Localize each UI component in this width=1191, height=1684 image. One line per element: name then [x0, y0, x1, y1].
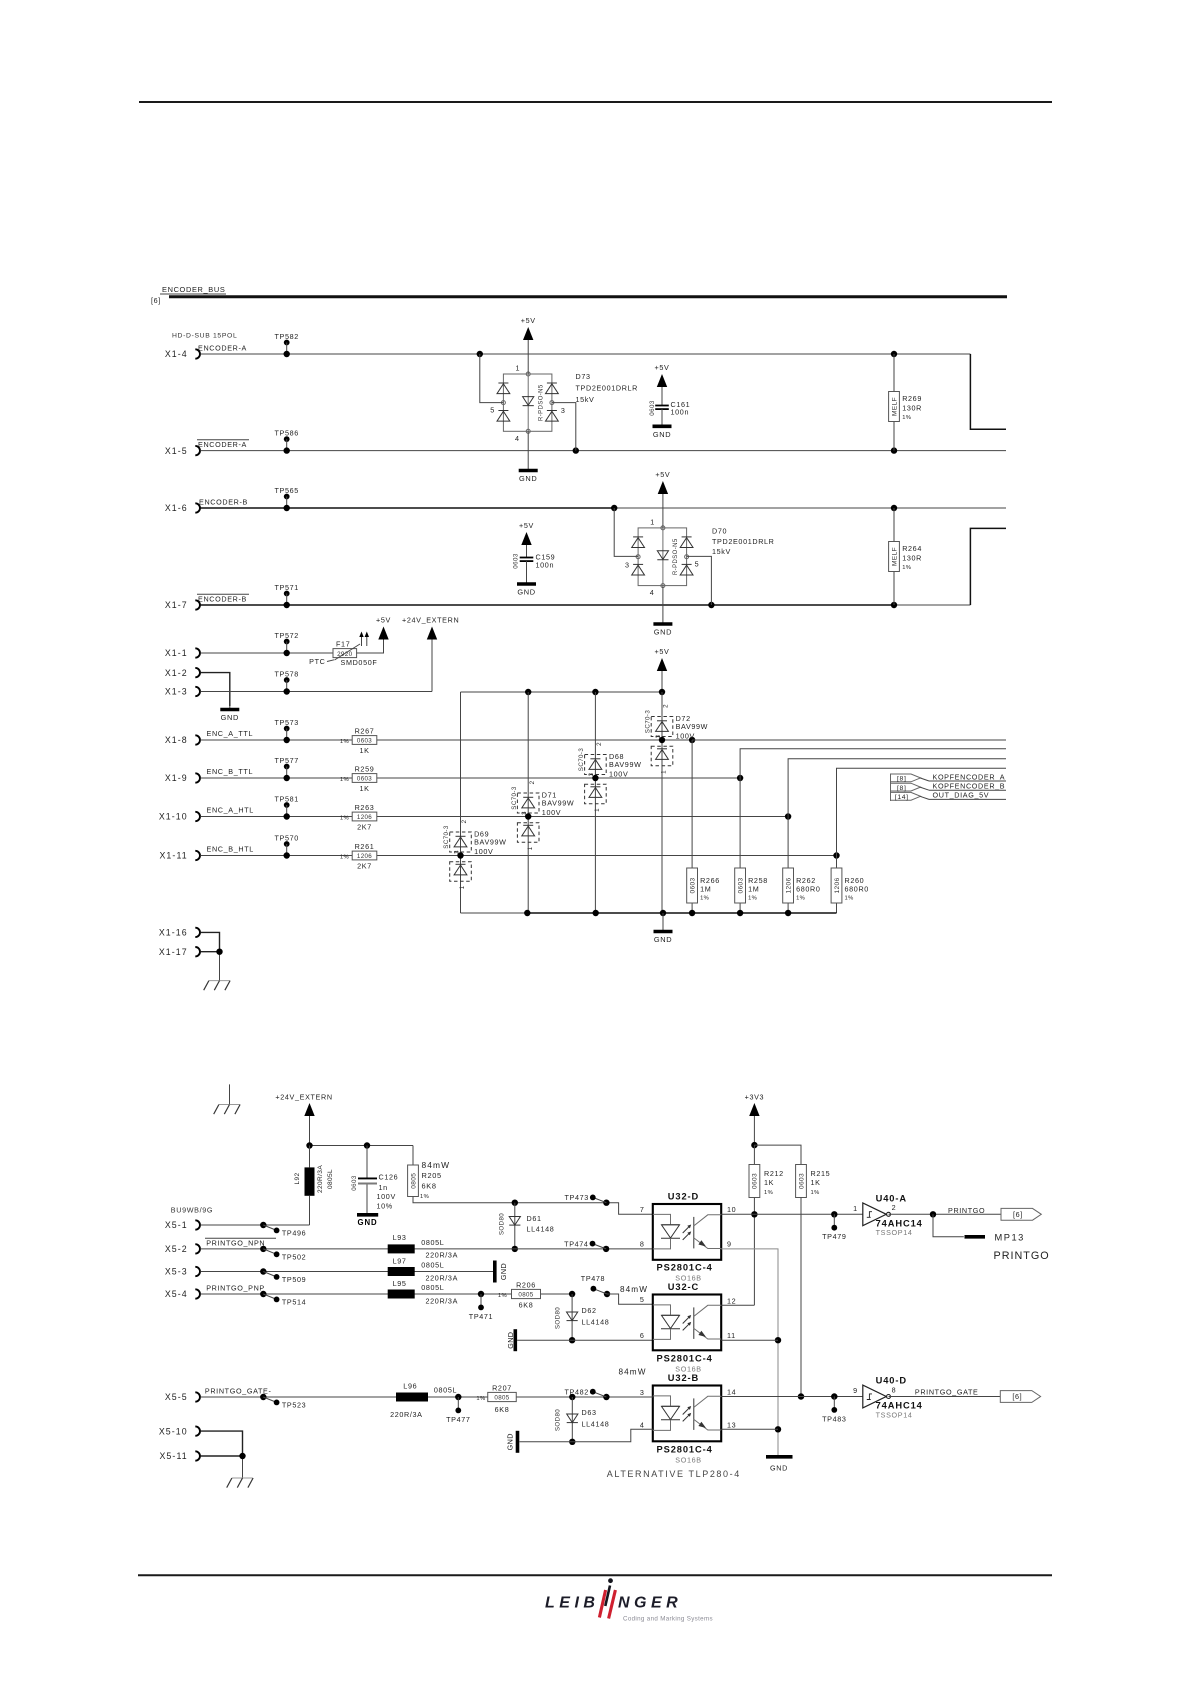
node rail D68: [592, 689, 598, 695]
wire X1-10: [200, 816, 788, 818]
svg-text:2K7: 2K7: [357, 823, 372, 832]
svg-text:680R0: 680R0: [845, 885, 869, 894]
svg-text:0603: 0603: [737, 877, 744, 893]
ground GND rail: [662, 913, 664, 932]
wire U32-B pin13: [721, 1428, 778, 1430]
svg-text:ALTERNATIVE TLP280-4: ALTERNATIVE TLP280-4: [607, 1469, 741, 1479]
svg-text:TP565: TP565: [274, 486, 298, 495]
svg-text:KOPFENCODER_B: KOPFENCODER_B: [933, 782, 1006, 791]
svg-text:TP473: TP473: [564, 1193, 588, 1202]
svg-text:1%: 1%: [498, 1293, 507, 1299]
wire F17 to +5V: [357, 640, 384, 654]
node X1-10 / R262: [785, 813, 791, 819]
svg-text:U40-D: U40-D: [876, 1376, 907, 1386]
testpoint TP483: [831, 1393, 837, 1399]
svg-text:PS2801C-4: PS2801C-4: [657, 1353, 713, 1363]
svg-text:12: 12: [727, 1297, 736, 1306]
svg-text:0805L: 0805L: [421, 1261, 444, 1270]
svg-text:130R: 130R: [902, 554, 922, 563]
node pin11 junction: [775, 1337, 781, 1343]
wire X1-11: [200, 855, 836, 857]
resistor R266: [691, 740, 693, 913]
svg-text:1%: 1%: [700, 896, 709, 902]
svg-text:5: 5: [490, 405, 495, 414]
svg-text:2: 2: [461, 819, 468, 823]
resistor R215: [754, 1145, 801, 1164]
wire X1-2 to GND: [200, 673, 229, 706]
diode D63: [571, 1397, 573, 1442]
svg-text:TP571: TP571: [274, 583, 298, 592]
svg-text:R267: R267: [355, 726, 375, 735]
svg-text:SC70-3: SC70-3: [511, 786, 518, 810]
svg-text:1%: 1%: [902, 415, 911, 421]
svg-text:TSSOP14: TSSOP14: [876, 1228, 913, 1237]
svg-text:TP573: TP573: [274, 718, 298, 727]
testpoint TP523: [260, 1394, 266, 1400]
svg-text:ENC_A_TTL: ENC_A_TTL: [207, 729, 254, 738]
node GND rail junction: [737, 910, 743, 916]
inverter U40-A: [863, 1203, 887, 1226]
svg-text:9: 9: [727, 1240, 732, 1249]
wire X1-3 to +24V_EXTERN: [200, 691, 432, 693]
svg-text:1: 1: [527, 846, 534, 850]
svg-text:1M: 1M: [700, 885, 711, 894]
svg-text:GND: GND: [221, 713, 239, 722]
connector pin X5-5: [195, 1392, 200, 1401]
wire D70 pin5 to X1-7: [687, 556, 712, 605]
ground X1-2: [229, 706, 231, 710]
connector pin X1-5: [195, 446, 200, 455]
connector pin X1-6: [195, 503, 200, 512]
optocoupler U32-B: [653, 1386, 721, 1442]
svg-text:2: 2: [663, 704, 670, 708]
svg-text:TP582: TP582: [274, 332, 298, 341]
svg-text:ENCODER-A: ENCODER-A: [198, 440, 247, 449]
svg-text:0805: 0805: [494, 1394, 509, 1401]
svg-text:3: 3: [655, 734, 662, 738]
wire U32-D pin10 to U40-A: [721, 1213, 863, 1215]
connector pin X1-17: [195, 947, 200, 956]
svg-text:ENCODER_BUS: ENCODER_BUS: [162, 285, 225, 294]
page ref [14] OUT_DIAG_5V: [891, 792, 921, 800]
svg-text:3: 3: [561, 406, 566, 415]
diode array D68: [585, 755, 607, 775]
resistor R207: [488, 1392, 517, 1401]
svg-text:SC70-3: SC70-3: [443, 825, 450, 849]
testpoint TP502: [260, 1246, 266, 1252]
resistor R267: [352, 736, 377, 745]
svg-text:TP496: TP496: [282, 1229, 306, 1238]
svg-text:5: 5: [695, 560, 700, 569]
svg-text:1%: 1%: [845, 896, 854, 902]
svg-text:MELF: MELF: [891, 397, 898, 416]
wire U32-D pin9 down: [721, 1249, 778, 1456]
node X1-4 / D73 junction: [477, 351, 483, 357]
connector pin X1-11: [195, 851, 200, 860]
testpoint TP496: [260, 1222, 266, 1228]
svg-text:L96: L96: [403, 1382, 417, 1391]
svg-text:TP478: TP478: [581, 1274, 605, 1283]
inductor L97: [388, 1267, 415, 1276]
svg-text:1%: 1%: [748, 896, 757, 902]
svg-text:SO16B: SO16B: [675, 1455, 701, 1464]
svg-text:X1-5: X1-5: [165, 446, 188, 456]
svg-text:1206: 1206: [357, 814, 372, 821]
ground U32-B pin4: [516, 1431, 520, 1453]
node X1-11 clamp junction: [457, 852, 463, 858]
svg-text:74AHC14: 74AHC14: [876, 1401, 923, 1411]
ground X5-3: [493, 1261, 497, 1283]
wire X1-9 jog to edge: [740, 749, 1006, 778]
earth X1-16/17: [209, 980, 230, 982]
testpoint TP479: [831, 1211, 837, 1217]
svg-text:+24V_EXTERN: +24V_EXTERN: [402, 616, 459, 625]
svg-text:Coding and Marking Systems: Coding and Marking Systems: [623, 1615, 713, 1622]
svg-text:PRINTGO_GATE: PRINTGO_GATE: [915, 1388, 979, 1397]
resistor R205: [412, 1146, 414, 1166]
svg-text:U32-D: U32-D: [668, 1191, 699, 1201]
svg-text:X5-3: X5-3: [165, 1267, 188, 1277]
svg-text:L95: L95: [393, 1279, 407, 1288]
node X1-10 clamp junction: [525, 813, 531, 819]
power +5V at C159: [521, 532, 531, 545]
inductor L93: [388, 1244, 415, 1253]
svg-text:TP577: TP577: [274, 756, 298, 765]
svg-text:PRINTGO: PRINTGO: [948, 1206, 985, 1215]
svg-text:L93: L93: [393, 1233, 407, 1242]
resistor R262: [787, 817, 789, 914]
svg-text:100V: 100V: [609, 770, 628, 779]
svg-text:1: 1: [661, 770, 668, 774]
svg-text:1%: 1%: [340, 816, 349, 822]
svg-text:PTC: PTC: [309, 657, 325, 666]
resistor R258: [739, 778, 741, 913]
svg-text:1K: 1K: [359, 746, 369, 755]
connector pin X1-9: [195, 773, 200, 782]
wire X1-1: [200, 652, 333, 654]
page ref [8] KOPFENCODER_B: [891, 783, 921, 791]
svg-text:6K8: 6K8: [519, 1301, 534, 1310]
svg-text:100n: 100n: [536, 561, 555, 570]
svg-text:TPD2E001DRLR: TPD2E001DRLR: [576, 384, 639, 393]
svg-text:[14]: [14]: [895, 794, 909, 801]
tvs diode array D73: [503, 374, 552, 431]
ground C126: [366, 1185, 368, 1214]
node X1-8 / R266: [689, 737, 695, 743]
node X5-11 junction: [239, 1453, 245, 1459]
svg-text:X1-10: X1-10: [159, 812, 188, 822]
testpoint TP514: [260, 1291, 266, 1297]
svg-text:2K7: 2K7: [357, 862, 372, 871]
svg-text:3: 3: [588, 772, 595, 776]
svg-text:X1-2: X1-2: [165, 668, 188, 678]
wire X1-7 offpage jog: [970, 528, 1006, 605]
fuse F17 PTC: [333, 649, 357, 658]
svg-text:X5-2: X5-2: [165, 1244, 188, 1254]
svg-text:X1-1: X1-1: [165, 648, 188, 658]
svg-text:R269: R269: [902, 394, 922, 403]
svg-text:ENC_A_HTL: ENC_A_HTL: [207, 806, 254, 815]
power +5V at D70: [658, 481, 668, 494]
svg-text:PS2801C-4: PS2801C-4: [657, 1262, 713, 1272]
wire X1-4: [200, 353, 970, 355]
inverter U40-D: [863, 1385, 887, 1408]
svg-text:1: 1: [594, 808, 601, 812]
svg-text:4: 4: [650, 588, 655, 597]
connector pin X1-10: [195, 812, 200, 821]
wire U40-D output: [889, 1396, 1001, 1398]
node X1-5 / R269 junction: [891, 447, 897, 453]
power +5V at C161: [657, 374, 667, 387]
svg-text:LEIB: LEIB: [545, 1595, 599, 1612]
svg-text:MP13: MP13: [995, 1233, 1025, 1243]
capacitor C126: [366, 1146, 368, 1178]
node L92 top: [306, 1142, 312, 1148]
svg-text:[6]: [6]: [1012, 1392, 1022, 1401]
svg-text:1: 1: [459, 885, 466, 889]
svg-text:R215: R215: [811, 1169, 831, 1178]
bus ENCODER_BUS: [169, 295, 1007, 298]
node D63 bottom: [569, 1439, 575, 1445]
tvs diode array D70: [638, 528, 687, 586]
svg-text:1206: 1206: [785, 877, 792, 893]
connector pin X1-7: [195, 600, 200, 609]
svg-text:BU9WB/9G: BU9WB/9G: [171, 1206, 213, 1215]
svg-text:BAV99W: BAV99W: [609, 760, 642, 769]
svg-text:X5-1: X5-1: [165, 1220, 188, 1230]
node C126 top: [364, 1142, 370, 1148]
connector pin X1-16: [195, 928, 200, 937]
svg-text:LL4148: LL4148: [582, 1318, 610, 1327]
node X1-6 / D70 junction: [611, 505, 617, 511]
svg-text:TP477: TP477: [446, 1415, 470, 1424]
svg-text:ENC_B_TTL: ENC_B_TTL: [207, 767, 254, 776]
svg-text:X1-11: X1-11: [159, 851, 187, 861]
svg-text:SC70-3: SC70-3: [578, 748, 585, 772]
svg-text:TP578: TP578: [274, 669, 298, 678]
inductor L92: [309, 1146, 311, 1168]
node GND rail junction: [524, 910, 530, 916]
connector pin X5-1: [195, 1220, 200, 1229]
svg-text:ENCODER-B: ENCODER-B: [198, 594, 247, 603]
resistor R261: [352, 851, 377, 860]
svg-text:1%: 1%: [340, 739, 349, 745]
svg-text:GND: GND: [770, 1464, 788, 1473]
connector pin X1-4: [195, 349, 200, 358]
svg-text:TP586: TP586: [274, 428, 298, 437]
node bracket KOPFENCODER: [890, 774, 892, 801]
diode D61: [514, 1203, 516, 1249]
wire D73 pin3 to X1-5: [552, 403, 576, 451]
PTC arrows: [361, 634, 363, 646]
svg-text:3: 3: [625, 560, 630, 569]
svg-text:TSSOP14: TSSOP14: [876, 1410, 913, 1419]
svg-text:0603: 0603: [752, 1173, 759, 1189]
svg-text:X1-4: X1-4: [165, 349, 188, 359]
logo LEIBINGER: [545, 1595, 682, 1612]
wire U32-C pin11: [721, 1339, 778, 1341]
measure point MP13: [933, 1214, 964, 1237]
node R212 pin10 junction: [751, 1211, 757, 1217]
svg-text:GND: GND: [654, 935, 672, 944]
svg-text:X1-7: X1-7: [165, 600, 188, 610]
power +5V at clamp rail: [657, 658, 667, 671]
page top rule: [139, 101, 1052, 103]
svg-text:0603: 0603: [513, 553, 520, 569]
connector pin X1-1: [195, 648, 200, 657]
svg-text:220R/3A: 220R/3A: [426, 1251, 459, 1260]
power +5V after F17: [378, 627, 388, 640]
svg-text:[6]: [6]: [1013, 1210, 1023, 1219]
svg-text:F17: F17: [336, 640, 350, 649]
svg-text:84mW: 84mW: [422, 1160, 451, 1170]
testpoint TP473: [603, 1200, 609, 1206]
svg-text:D63: D63: [582, 1408, 597, 1417]
wire X1-9: [200, 777, 740, 779]
svg-text:D61: D61: [527, 1214, 542, 1223]
svg-text:X1-6: X1-6: [165, 503, 188, 513]
wire X1-16/17 to earth: [200, 932, 219, 951]
node X1-7 / R264 junction: [891, 602, 897, 608]
svg-text:TP581: TP581: [274, 794, 298, 803]
svg-text:R205: R205: [422, 1171, 442, 1180]
svg-text:LL4148: LL4148: [527, 1225, 555, 1234]
svg-text:0603: 0603: [798, 1173, 805, 1189]
svg-text:74AHC14: 74AHC14: [876, 1219, 923, 1229]
diode array D69: [450, 832, 472, 852]
svg-text:GND: GND: [357, 1218, 377, 1227]
svg-text:TP502: TP502: [282, 1253, 306, 1262]
optocoupler U32-C: [653, 1295, 721, 1351]
node X1-4 / R269 junction: [891, 351, 897, 357]
wire X5-4 to R206: [200, 1293, 572, 1295]
svg-text:U32-C: U32-C: [668, 1282, 699, 1292]
net arrow PRINTGO [6]: [1001, 1208, 1041, 1220]
svg-text:1%: 1%: [811, 1190, 820, 1196]
svg-text:4: 4: [515, 434, 520, 443]
optocoupler U32-D: [653, 1204, 721, 1260]
svg-text:+5V: +5V: [521, 316, 536, 325]
svg-text:0603: 0603: [649, 400, 656, 416]
svg-text:PRINTGO_GATE-: PRINTGO_GATE-: [205, 1387, 272, 1396]
node D62 bottom: [569, 1337, 575, 1343]
svg-text:TP471: TP471: [469, 1312, 493, 1321]
wire X1-4 to D73 pin5: [480, 354, 504, 403]
wire U32-B pin14 to U40-D: [721, 1396, 863, 1398]
svg-text:0805: 0805: [518, 1291, 533, 1298]
svg-text:R264: R264: [902, 544, 922, 553]
svg-text:1%: 1%: [420, 1194, 429, 1200]
svg-text:1%: 1%: [796, 896, 805, 902]
resistor R269: [893, 354, 895, 451]
svg-text:1: 1: [853, 1204, 858, 1213]
svg-text:BAV99W: BAV99W: [676, 722, 709, 731]
connector pin X5-2: [195, 1244, 200, 1253]
wire X1-5: [200, 450, 1006, 452]
svg-text:15kV: 15kV: [576, 395, 595, 404]
resistor R264: [893, 508, 895, 605]
connector pin X5-10: [195, 1426, 200, 1435]
node X1-9 clamp junction: [592, 775, 598, 781]
svg-text:MELF: MELF: [891, 547, 898, 566]
wire U32-B pin4: [520, 1429, 653, 1442]
svg-text:GND: GND: [653, 430, 671, 439]
wire X1-4 offpage jog: [970, 354, 1006, 429]
testpoint TP509: [260, 1268, 266, 1274]
svg-text:ENCODER-A: ENCODER-A: [198, 343, 247, 352]
svg-text:0603: 0603: [357, 737, 372, 744]
node X1-5 / D73 pin3 junction: [573, 447, 579, 453]
node GND rail junction: [660, 910, 666, 916]
ground below C159: [526, 561, 528, 584]
svg-text:130R: 130R: [902, 404, 922, 413]
resistor R263: [352, 812, 377, 821]
svg-text:OUT_DIAG_5V: OUT_DIAG_5V: [933, 791, 990, 800]
svg-text:SOD80: SOD80: [499, 1213, 506, 1235]
wire X1-11 jog to edge: [837, 768, 1007, 855]
svg-text:0603: 0603: [351, 1175, 358, 1191]
svg-text:R-PDSO-N5: R-PDSO-N5: [538, 384, 544, 421]
svg-text:X1-9: X1-9: [165, 773, 188, 783]
power +5V at D73: [523, 327, 533, 340]
svg-text:0603: 0603: [689, 877, 696, 893]
svg-text:7: 7: [640, 1205, 645, 1214]
svg-text:R212: R212: [764, 1169, 784, 1178]
testpoint TP474: [603, 1246, 609, 1252]
svg-text:X5-4: X5-4: [165, 1289, 188, 1299]
node rail D71: [525, 689, 531, 695]
node D61 top: [512, 1200, 518, 1206]
svg-text:BAV99W: BAV99W: [542, 799, 575, 808]
svg-text:6: 6: [640, 1331, 645, 1340]
wire X1-8 to edge: [692, 739, 1006, 741]
resistor R259: [352, 774, 377, 783]
svg-text:C126: C126: [379, 1173, 399, 1182]
connector pin X5-4: [195, 1289, 200, 1298]
node GND rail junction: [689, 910, 695, 916]
svg-text:0805: 0805: [410, 1173, 417, 1189]
svg-text:X5-5: X5-5: [165, 1392, 188, 1402]
svg-text:[8]: [8]: [897, 776, 907, 783]
svg-text:1206: 1206: [834, 877, 841, 893]
svg-text:GND: GND: [654, 628, 672, 637]
svg-text:ENCODER-B: ENCODER-B: [199, 497, 248, 506]
svg-text:3: 3: [640, 1388, 645, 1397]
wire X1-8: [200, 739, 692, 741]
svg-text:1n: 1n: [379, 1183, 388, 1192]
svg-text:R207: R207: [492, 1383, 512, 1392]
wire +5V clamp rail: [461, 691, 663, 693]
inductor L95: [388, 1290, 415, 1299]
wire X5-5 to U32-B pin3: [200, 1396, 652, 1398]
wire U40-A output: [889, 1213, 1002, 1215]
svg-text:NGER: NGER: [618, 1595, 682, 1612]
wire U32-C pin12: [721, 1304, 754, 1306]
svg-text:9: 9: [853, 1386, 858, 1395]
connector pin X1-2: [195, 668, 200, 677]
svg-text:1%: 1%: [340, 777, 349, 783]
svg-text:0805L: 0805L: [421, 1283, 444, 1292]
svg-text:3: 3: [521, 811, 528, 815]
svg-text:X1-16: X1-16: [159, 928, 188, 938]
svg-text:TP523: TP523: [282, 1401, 306, 1410]
svg-text:220R/3A: 220R/3A: [317, 1165, 324, 1193]
ground below C161: [661, 409, 663, 426]
svg-text:10%: 10%: [377, 1202, 393, 1211]
svg-text:SMD050F: SMD050F: [341, 658, 378, 667]
svg-text:8: 8: [892, 1385, 897, 1394]
node GND rail junction: [593, 910, 599, 916]
